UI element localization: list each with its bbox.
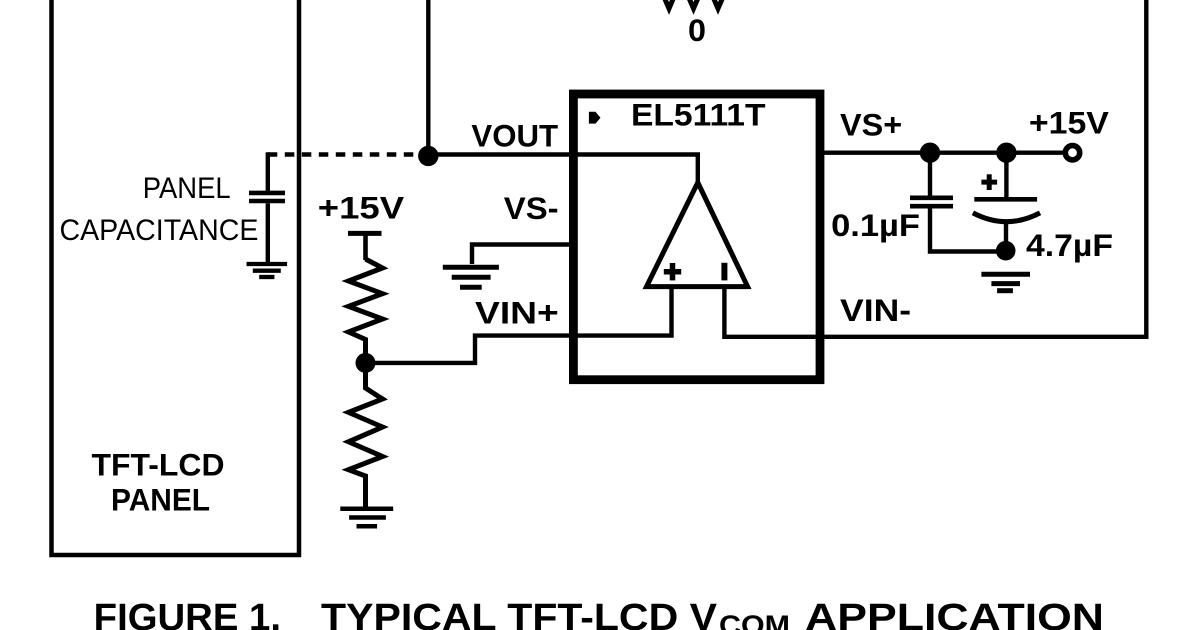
node C2 ground junction xyxy=(996,241,1016,261)
wire dashed VOUT to panel capacitance xyxy=(268,152,416,156)
svg-text:APPLICATION: APPLICATION xyxy=(805,597,1104,630)
capacitor C_panel plates xyxy=(249,193,285,201)
TFT-LCD panel box xyxy=(52,0,300,555)
capacitor C2 lead bottom xyxy=(1004,222,1008,251)
capacitor C2 polarity plus xyxy=(981,174,997,190)
svg-text:PANEL: PANEL xyxy=(111,482,210,518)
wire + input internal xyxy=(573,287,672,336)
svg-text:VS-: VS- xyxy=(504,190,559,226)
label 0.1uF xyxy=(831,207,920,243)
label VIN+ xyxy=(475,295,559,331)
wire VS- pin to ground xyxy=(472,245,575,265)
node VOUT junction xyxy=(418,146,438,166)
capacitor C2 top plate xyxy=(974,197,1037,202)
op-amp U1 triangle xyxy=(647,183,748,287)
svg-text:0: 0 xyxy=(688,12,706,48)
svg-text:TFT-LCD: TFT-LCD xyxy=(92,447,225,483)
svg-text:4.7µF: 4.7µF xyxy=(1026,227,1113,263)
label +15V left xyxy=(318,190,404,226)
resistor R2 xyxy=(349,366,383,507)
svg-text:VIN-: VIN- xyxy=(840,292,911,328)
capacitor C2 lead top xyxy=(1004,153,1008,197)
ground C2 xyxy=(981,274,1030,290)
wire VOUT to op-amp box xyxy=(428,152,570,156)
node divider junction xyxy=(356,353,376,373)
supply terminal bar +15V left xyxy=(348,233,382,260)
op-amp + input mark xyxy=(664,263,681,280)
svg-text:CAPACITANCE: CAPACITANCE xyxy=(60,214,259,247)
wire feedback top-left vertical xyxy=(426,0,430,156)
ground VS- xyxy=(443,267,499,287)
capacitor C1 0.1uF lead top xyxy=(928,153,932,196)
label PANEL (capacitance) xyxy=(143,172,231,205)
label VS+ xyxy=(840,107,902,143)
caption COM subscript xyxy=(719,609,790,630)
svg-text:TYPICAL TFT-LCD V: TYPICAL TFT-LCD V xyxy=(321,597,718,630)
node VS+ b xyxy=(996,143,1016,163)
node VS+ a xyxy=(920,143,940,163)
pin-1 marker xyxy=(589,112,601,124)
op-amp U1 package box xyxy=(573,94,820,380)
capacitor C1 lead bottom xyxy=(930,208,1006,251)
terminal +15V open circle xyxy=(1065,146,1079,160)
caption FIGURE 1. xyxy=(94,597,281,630)
resistor R1 xyxy=(349,259,383,354)
capacitor C2 curved plate xyxy=(973,213,1040,222)
wire op-amp output internal xyxy=(573,155,698,185)
svg-text:+15V: +15V xyxy=(1029,105,1109,141)
label VOUT xyxy=(471,118,558,154)
svg-text:PANEL: PANEL xyxy=(143,172,231,205)
wire VIN- to right feedback xyxy=(820,0,1146,337)
capacitor C_panel lead bottom xyxy=(266,203,270,262)
label CAPACITANCE xyxy=(60,214,259,247)
label VS- xyxy=(504,190,559,226)
ground R2 xyxy=(340,509,393,527)
wire VS+ rail xyxy=(820,150,1066,154)
svg-text:0.1µF: 0.1µF xyxy=(831,207,920,243)
resistor R3 top cut zigzag xyxy=(657,0,731,9)
wire VIN+ pin to divider node xyxy=(370,336,575,363)
ground panel-cap xyxy=(247,264,288,277)
caption APPLICATION xyxy=(805,597,1104,630)
svg-text:+15V: +15V xyxy=(318,190,404,226)
svg-text:COM: COM xyxy=(719,609,790,630)
svg-text:VIN+: VIN+ xyxy=(475,295,559,331)
label +15V right xyxy=(1029,105,1109,141)
label PANEL xyxy=(111,482,210,518)
wire - input internal xyxy=(724,287,820,337)
svg-text:FIGURE 1.: FIGURE 1. xyxy=(94,597,281,630)
label VIN- xyxy=(840,292,911,328)
svg-text:EL5111T: EL5111T xyxy=(631,97,766,133)
op-amp - input mark xyxy=(721,263,727,281)
svg-text:VOUT: VOUT xyxy=(471,118,558,154)
label EL5111T xyxy=(631,97,766,133)
label R3 value 0 xyxy=(688,12,706,48)
label TFT-LCD xyxy=(92,447,225,483)
caption TYPICAL TFT-LCD V xyxy=(321,597,718,630)
label 4.7uF xyxy=(1026,227,1113,263)
svg-text:VS+: VS+ xyxy=(840,107,902,143)
capacitor C1 plates xyxy=(910,198,953,206)
capacitor C_panel lead top xyxy=(266,152,270,191)
